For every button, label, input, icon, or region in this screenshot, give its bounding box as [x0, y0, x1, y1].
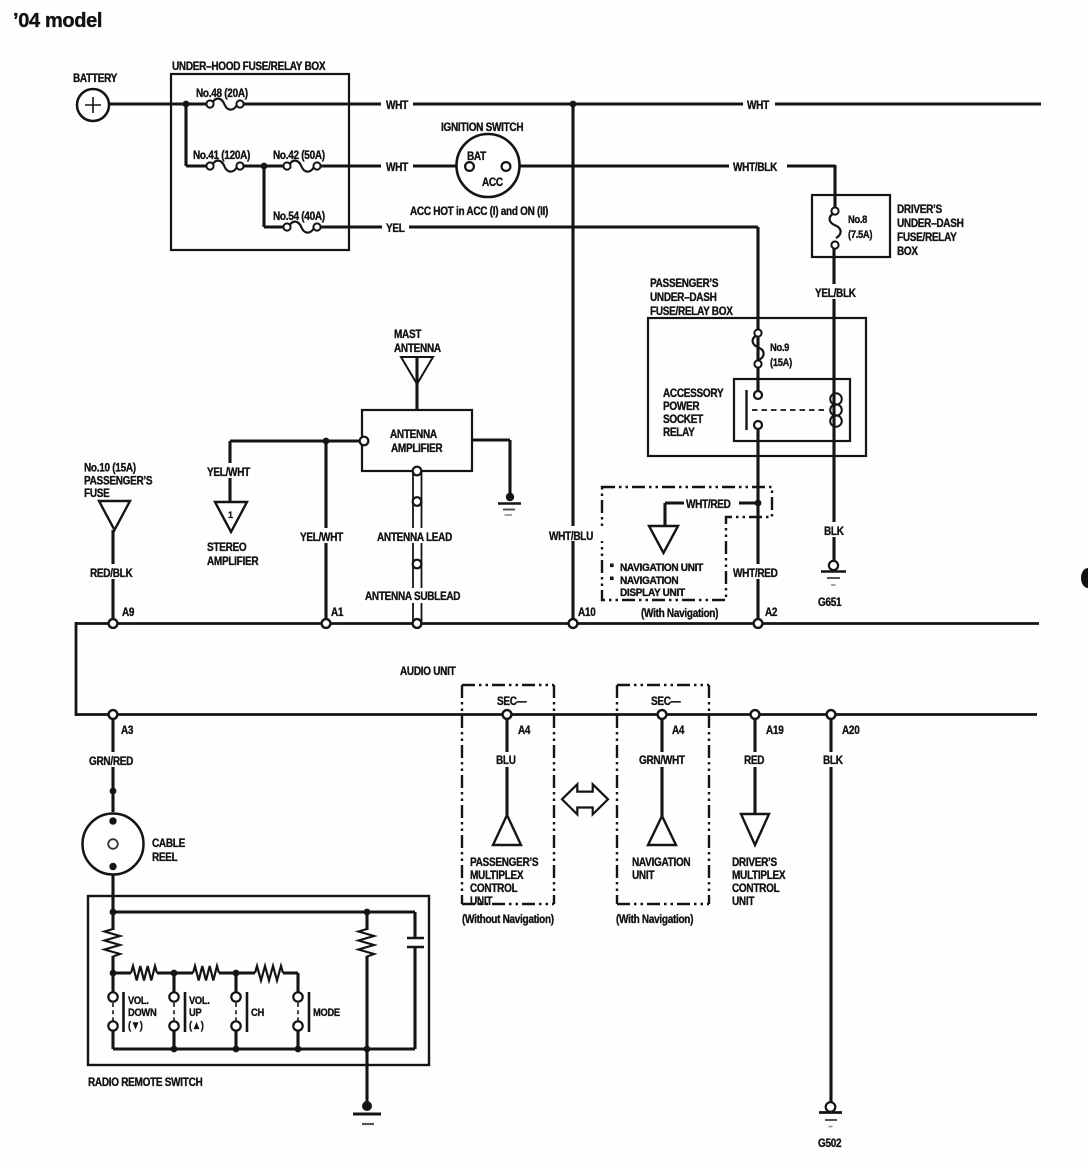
svg-text:WHT/BLU: WHT/BLU [549, 530, 593, 543]
svg-text:YEL/BLK: YEL/BLK [815, 287, 856, 300]
svg-text:(With Navigation): (With Navigation) [616, 913, 694, 926]
svg-text:BATTERY: BATTERY [73, 72, 118, 85]
svg-text:No.42 (50A): No.42 (50A) [273, 149, 325, 162]
svg-text:POWER: POWER [663, 400, 700, 413]
svg-text:IGNITION SWITCH: IGNITION SWITCH [441, 121, 524, 134]
svg-text:AMPLIFIER: AMPLIFIER [207, 555, 258, 568]
svg-text:SEC—: SEC— [497, 695, 527, 708]
svg-text:ANTENNA LEAD: ANTENNA LEAD [377, 531, 452, 544]
svg-text:RADIO REMOTE SWITCH: RADIO REMOTE SWITCH [88, 1076, 203, 1089]
svg-text:PASSENGER’S: PASSENGER’S [650, 277, 718, 290]
svg-text:WHT: WHT [386, 161, 408, 174]
svg-text:(7.5A): (7.5A) [848, 229, 872, 241]
svg-text:AUDIO UNIT: AUDIO UNIT [400, 665, 456, 678]
svg-text:FUSE/RELAY BOX: FUSE/RELAY BOX [650, 305, 733, 318]
svg-text:WHT: WHT [747, 99, 769, 112]
svg-text:SOCKET: SOCKET [663, 413, 703, 426]
svg-text:A1: A1 [331, 606, 343, 619]
svg-text:NAVIGATION: NAVIGATION [632, 856, 691, 869]
svg-text:UNDER–HOOD FUSE/RELAY BOX: UNDER–HOOD FUSE/RELAY BOX [172, 60, 326, 73]
svg-text:A19: A19 [766, 724, 784, 737]
svg-text:DOWN: DOWN [128, 1007, 156, 1019]
svg-text:(15A): (15A) [770, 357, 792, 369]
svg-text:A2: A2 [765, 606, 777, 619]
svg-text:BLK: BLK [823, 754, 843, 767]
svg-text:G651: G651 [818, 596, 841, 609]
svg-text:A10: A10 [578, 606, 596, 619]
svg-text:No.9: No.9 [770, 342, 790, 354]
svg-text:BLK: BLK [824, 525, 844, 538]
svg-text:ACCESSORY: ACCESSORY [663, 387, 724, 400]
svg-text:MULTIPLEX: MULTIPLEX [732, 869, 786, 882]
svg-text:(With Navigation): (With Navigation) [641, 607, 719, 620]
svg-text:UNDER–DASH: UNDER–DASH [650, 291, 717, 304]
svg-text:G502: G502 [818, 1137, 841, 1150]
svg-text:(▼): (▼) [128, 1020, 143, 1032]
svg-text:MODE: MODE [313, 1007, 340, 1019]
svg-text:BLU: BLU [496, 754, 516, 767]
svg-text:YEL/WHT: YEL/WHT [300, 531, 343, 544]
svg-text:ACC HOT in ACC (I) and ON (II): ACC HOT in ACC (I) and ON (II) [410, 205, 549, 218]
svg-text:UNDER–DASH: UNDER–DASH [897, 217, 964, 230]
svg-text:(Without Navigation): (Without Navigation) [462, 913, 554, 926]
svg-text:UNIT: UNIT [470, 895, 493, 908]
svg-text:DRIVER’S: DRIVER’S [897, 203, 942, 216]
svg-text:A3: A3 [121, 724, 133, 737]
svg-text:SEC—: SEC— [651, 695, 681, 708]
svg-text:A4: A4 [518, 724, 531, 737]
svg-text:No.10 (15A): No.10 (15A) [84, 462, 136, 475]
svg-text:1: 1 [228, 510, 233, 520]
svg-text:BAT: BAT [467, 150, 486, 163]
svg-text:WHT: WHT [386, 99, 408, 112]
svg-text:GRN/RED: GRN/RED [89, 755, 133, 768]
svg-text:VOL.: VOL. [189, 995, 210, 1007]
svg-text:No.48 (20A): No.48 (20A) [196, 87, 248, 100]
svg-text:PASSENGER’S: PASSENGER’S [470, 856, 538, 869]
svg-text:ANTENNA SUBLEAD: ANTENNA SUBLEAD [365, 590, 460, 603]
svg-text:STEREO: STEREO [207, 541, 247, 554]
svg-text:UP: UP [189, 1007, 202, 1019]
svg-text:YEL/WHT: YEL/WHT [207, 466, 250, 479]
svg-text:No.8: No.8 [848, 214, 868, 226]
svg-text:MULTIPLEX: MULTIPLEX [470, 869, 524, 882]
svg-text:PASSENGER’S: PASSENGER’S [84, 475, 152, 488]
svg-text:CH: CH [251, 1007, 264, 1019]
svg-text:WHT/RED: WHT/RED [733, 567, 778, 580]
svg-text:A20: A20 [842, 724, 860, 737]
svg-text:No.54 (40A): No.54 (40A) [273, 210, 325, 223]
svg-text:WHT/RED: WHT/RED [686, 498, 731, 511]
svg-text:FUSE/RELAY: FUSE/RELAY [897, 231, 957, 244]
svg-text:ANTENNA: ANTENNA [394, 342, 441, 355]
svg-text:’04 model: ’04 model [13, 10, 102, 32]
svg-text:CABLE: CABLE [152, 837, 185, 850]
svg-text:DRIVER’S: DRIVER’S [732, 856, 777, 869]
svg-text:ACC: ACC [482, 176, 503, 189]
svg-text:No.41 (120A): No.41 (120A) [193, 149, 251, 162]
svg-text:MAST: MAST [394, 328, 422, 341]
svg-text:FUSE: FUSE [84, 487, 110, 500]
svg-text:A9: A9 [122, 606, 134, 619]
svg-text:REEL: REEL [152, 851, 178, 864]
svg-text:NAVIGATION: NAVIGATION [620, 576, 678, 587]
svg-text:GRN/WHT: GRN/WHT [639, 754, 685, 767]
svg-text:VOL.: VOL. [128, 995, 149, 1007]
svg-text:(▲): (▲) [189, 1020, 204, 1032]
svg-text:CONTROL: CONTROL [732, 882, 780, 895]
svg-text:ANTENNA: ANTENNA [390, 428, 437, 441]
svg-text:WHT/BLK: WHT/BLK [733, 161, 777, 174]
svg-text:UNIT: UNIT [632, 869, 655, 882]
svg-text:BOX: BOX [897, 245, 919, 258]
svg-text:NAVIGATION UNIT: NAVIGATION UNIT [620, 563, 704, 574]
svg-text:DISPLAY UNIT: DISPLAY UNIT [620, 588, 686, 599]
svg-text:RED: RED [744, 754, 764, 767]
svg-text:A4: A4 [672, 724, 685, 737]
svg-text:RELAY: RELAY [663, 426, 695, 439]
svg-text:CONTROL: CONTROL [470, 882, 518, 895]
svg-text:RED/BLK: RED/BLK [90, 567, 133, 580]
svg-text:YEL: YEL [386, 222, 405, 235]
svg-text:AMPLIFIER: AMPLIFIER [391, 442, 442, 455]
svg-text:UNIT: UNIT [732, 895, 755, 908]
